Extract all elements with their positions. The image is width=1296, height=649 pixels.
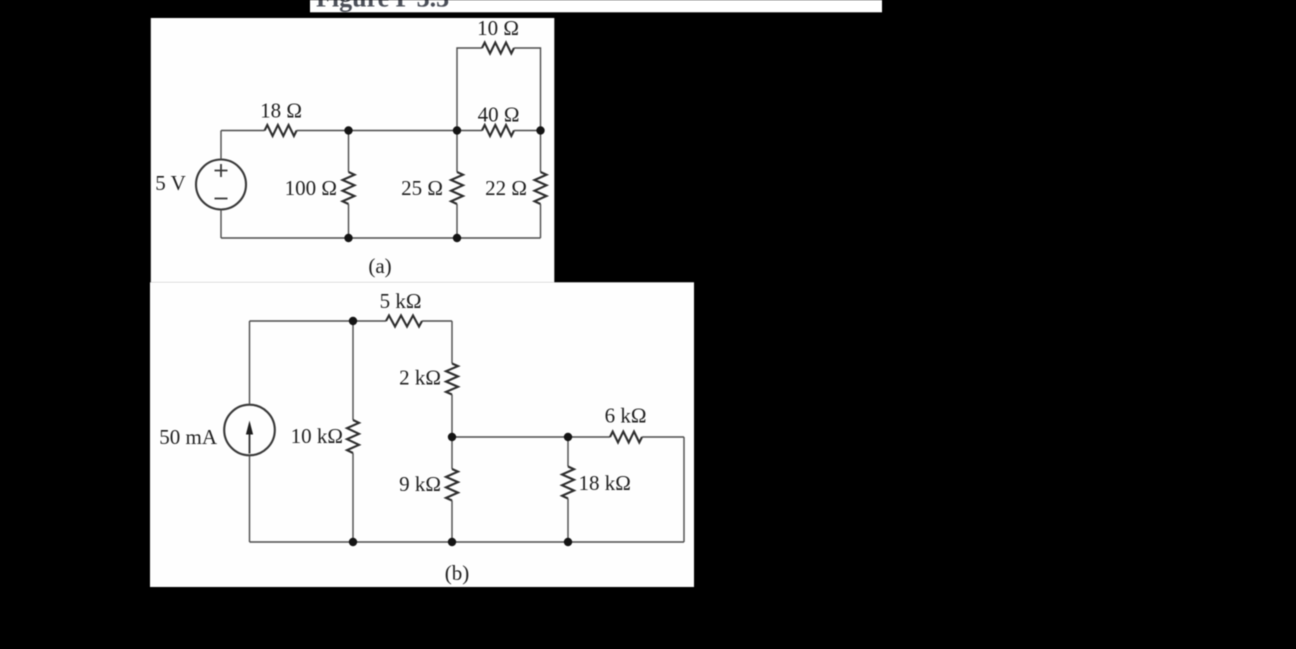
wire source top lead bbox=[220, 131, 222, 160]
wire right edge (b) bbox=[683, 437, 685, 542]
svg-text:5 V: 5 V bbox=[155, 171, 186, 195]
svg-text:18 Ω: 18 Ω bbox=[260, 99, 302, 123]
wire top right (b) bbox=[422, 320, 452, 322]
node dot bottom-right (a) bbox=[453, 234, 461, 242]
wire 10ohm loop left bbox=[457, 48, 482, 131]
wire middle left (b) bbox=[452, 436, 610, 438]
wire bottom (a) bbox=[221, 237, 541, 239]
svg-text:2 kΩ: 2 kΩ bbox=[399, 366, 441, 390]
wire 25ohm bottom lead bbox=[456, 204, 458, 238]
wire source bottom lead (b) bbox=[249, 455, 251, 542]
resistor 9 kohm bbox=[446, 469, 458, 501]
wire 18k bottom lead bbox=[567, 499, 569, 543]
node dot bottom-1 (b) bbox=[349, 538, 357, 546]
svg-text:10 kΩ: 10 kΩ bbox=[291, 424, 343, 448]
svg-text:18 kΩ: 18 kΩ bbox=[579, 471, 631, 495]
wire 10k top lead bbox=[352, 321, 354, 420]
voltage source plus sign bbox=[215, 164, 228, 177]
resistor 22 ohm bbox=[535, 172, 547, 204]
svg-text:25 Ω: 25 Ω bbox=[401, 176, 443, 200]
resistor 40 ohm bbox=[482, 125, 514, 136]
node dot top-right (a) bbox=[536, 126, 544, 134]
resistor 10 kohm bbox=[347, 420, 359, 453]
resistor 25 ohm bbox=[451, 172, 463, 204]
svg-text:(b): (b) bbox=[445, 561, 470, 585]
node dot bottom-3 (b) bbox=[564, 538, 572, 546]
panel (b) background bbox=[150, 282, 694, 587]
panel (a) background bbox=[151, 18, 555, 282]
svg-text:22 Ω: 22 Ω bbox=[485, 176, 527, 200]
svg-text:100 Ω: 100 Ω bbox=[285, 176, 337, 200]
svg-text:10 Ω: 10 Ω bbox=[477, 16, 519, 40]
node dot top-mid (a) bbox=[453, 126, 461, 134]
voltage source Vs 5V circle bbox=[196, 160, 246, 210]
node dot top-left (a) bbox=[344, 126, 352, 134]
resistor 5 kohm bbox=[386, 316, 422, 327]
wire 100ohm top lead bbox=[348, 131, 350, 173]
wire source top lead (b) bbox=[249, 321, 251, 405]
wire top right segment bbox=[514, 130, 541, 132]
node dot middle-left (b) bbox=[448, 433, 456, 441]
wire middle right (b) bbox=[642, 436, 684, 438]
svg-text:5 kΩ: 5 kΩ bbox=[380, 289, 422, 313]
title strip panel bbox=[310, 0, 882, 12]
wire 9k bottom lead bbox=[451, 501, 453, 543]
wire 2k top lead bbox=[451, 321, 453, 364]
node dot bottom-2 (b) bbox=[448, 538, 456, 546]
node dot top (b) bbox=[349, 317, 357, 325]
wire 22ohm bottom lead bbox=[540, 204, 542, 238]
title text "Figure P 3.3" (cut off at top) bbox=[316, 0, 449, 13]
current source arrow head bbox=[246, 421, 253, 435]
wire 22ohm top lead bbox=[540, 131, 542, 173]
svg-text:50 mA: 50 mA bbox=[159, 425, 218, 449]
resistor 6 kohm bbox=[610, 432, 642, 443]
voltage source minus sign bbox=[215, 198, 228, 200]
svg-text:6 kΩ: 6 kΩ bbox=[605, 404, 647, 428]
current source arrow shaft bbox=[249, 434, 251, 454]
wire 25ohm top lead bbox=[456, 131, 458, 173]
wire 18k top lead bbox=[567, 437, 569, 467]
wire top left segment bbox=[221, 130, 265, 132]
node dot bottom-left (a) bbox=[344, 234, 352, 242]
wire top middle segment bbox=[297, 130, 482, 132]
resistor 2 kohm bbox=[446, 364, 458, 395]
resistor 18 kohm bbox=[562, 467, 574, 499]
wire bottom (b) bbox=[250, 541, 685, 543]
wire 100ohm bottom lead bbox=[348, 204, 350, 238]
svg-text:(a): (a) bbox=[368, 254, 391, 278]
current source Is 50mA circle bbox=[224, 405, 275, 456]
resistor 10 ohm bbox=[482, 43, 514, 54]
wire 10ohm loop right bbox=[514, 48, 541, 131]
wire source bottom lead bbox=[220, 210, 222, 239]
wire top left (b) bbox=[250, 320, 387, 322]
wire 9k top lead bbox=[451, 437, 453, 469]
svg-text:Figure P 3.3: Figure P 3.3 bbox=[316, 0, 449, 13]
wire 10k bottom lead bbox=[352, 453, 354, 542]
resistor 18 ohm bbox=[265, 125, 297, 136]
svg-text:40 Ω: 40 Ω bbox=[478, 103, 520, 127]
resistor 100 ohm bbox=[343, 172, 355, 204]
svg-text:9 kΩ: 9 kΩ bbox=[399, 472, 441, 496]
node dot middle-right (b) bbox=[564, 433, 572, 441]
wire 2k bottom lead bbox=[451, 395, 453, 438]
